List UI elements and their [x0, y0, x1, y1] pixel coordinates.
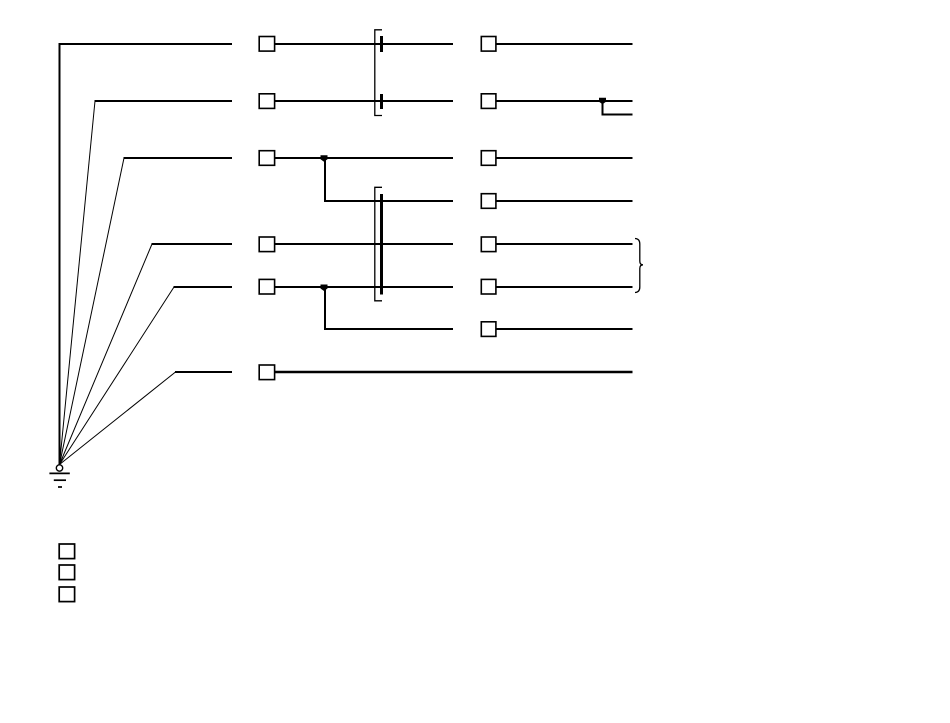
terminal L2 — [259, 94, 274, 109]
wire row1 left horizontal — [59, 43, 233, 45]
wire ground bus vertical — [59, 43, 61, 465]
shield S1 bracket — [375, 30, 382, 116]
wire diagonal to row3 — [60, 158, 125, 465]
terminal R3 — [481, 151, 496, 166]
wire row3 left horizontal — [124, 157, 233, 159]
terminal B2 — [59, 565, 74, 580]
terminal R2 — [481, 94, 496, 109]
terminal L5 — [259, 237, 274, 252]
junction row3 — [321, 155, 328, 162]
terminal R6 — [481, 279, 496, 294]
wire row5 left horizontal — [152, 243, 233, 245]
terminal B1 — [59, 544, 74, 559]
wire row8 long — [275, 371, 633, 373]
wire row8 left horizontal — [175, 371, 232, 373]
wire row5 mid — [275, 243, 453, 245]
wire row4 right — [496, 200, 633, 202]
wire row2 right — [496, 100, 633, 102]
terminal R7 — [481, 322, 496, 337]
brace pair marker — [635, 239, 643, 293]
wire diagonal to row6 — [60, 287, 175, 465]
terminal R5 — [481, 237, 496, 252]
wire row2 mid — [275, 100, 453, 102]
terminal B3 — [59, 587, 74, 602]
wire row1 mid — [275, 43, 453, 45]
terminal L1 — [259, 37, 274, 52]
wire row3 right — [496, 157, 633, 159]
wire row3 drop — [324, 158, 326, 201]
wire diagonal to row2 — [60, 101, 96, 465]
ground — [49, 465, 69, 487]
shield S2 bar — [380, 194, 383, 295]
terminal L8 — [259, 365, 274, 380]
shield S1 tick row1 — [380, 36, 383, 52]
wire row6 drop — [324, 287, 326, 329]
wire row3 mid — [275, 157, 453, 159]
terminal L3 — [259, 151, 274, 166]
wire row5 right — [496, 243, 633, 245]
terminal R4 — [481, 194, 496, 209]
junction row6 — [321, 285, 328, 292]
wire row2 left horizontal — [95, 100, 233, 102]
wire row1 right — [496, 43, 633, 45]
wire row6 left horizontal — [174, 286, 233, 288]
junction row2 right — [599, 98, 606, 105]
wire diagonal to row5 — [60, 244, 153, 465]
wire row7 right — [496, 328, 633, 330]
wire diagonal to row8 — [60, 372, 176, 465]
wire row6 mid — [275, 286, 453, 288]
wire row7 mid — [324, 328, 453, 330]
wire row4 mid — [324, 200, 453, 202]
shield S1 tick row2 — [380, 94, 383, 109]
shield S2 bracket — [375, 187, 382, 300]
terminal R1 — [481, 37, 496, 52]
terminal L6 — [259, 279, 274, 294]
wire row2 right drop — [603, 101, 633, 115]
wire row6 right — [496, 286, 633, 288]
